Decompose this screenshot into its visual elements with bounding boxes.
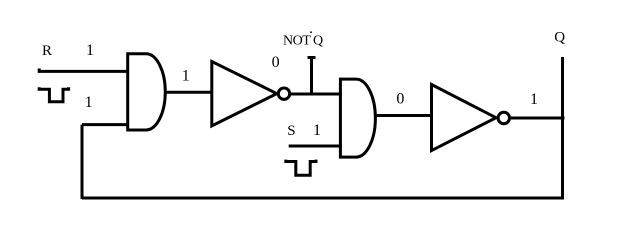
and-gate G2 — [340, 79, 375, 157]
wire U1 to G2 — [291, 93, 342, 96]
wire feedback bottom — [82, 197, 564, 200]
and-gate G1 — [128, 54, 166, 130]
svg-text:1: 1 — [313, 122, 321, 139]
wire feedback left vertical — [81, 125, 84, 199]
svg-text:R: R — [42, 43, 52, 59]
wire Q vertical — [561, 57, 564, 198]
inverter U2 — [432, 85, 497, 151]
svg-text:1: 1 — [530, 91, 538, 108]
node NOT Q stub — [308, 58, 316, 96]
wire G1 output — [164, 91, 213, 94]
wire G2 output — [374, 114, 433, 117]
wire R input — [39, 69, 129, 72]
svg-text:1: 1 — [182, 67, 190, 84]
svg-text:1: 1 — [85, 94, 93, 111]
S pulse waveform — [286, 160, 316, 176]
svg-text:0: 0 — [272, 54, 280, 71]
R pulse waveform — [39, 87, 68, 101]
wire U2 to Q line — [511, 117, 565, 120]
apostrophe dot above Q — [310, 31, 312, 33]
bubble U2 — [498, 112, 509, 123]
bubble U1 — [278, 88, 289, 99]
svg-text:S: S — [287, 123, 295, 139]
wire feedback into G1 — [82, 123, 129, 126]
svg-text:NOT Q: NOT Q — [283, 34, 323, 49]
inverter U1 — [212, 62, 277, 126]
svg-text:Q: Q — [554, 30, 565, 46]
wire S input — [289, 145, 342, 148]
svg-text:0: 0 — [396, 91, 404, 108]
svg-text:1: 1 — [86, 42, 94, 59]
